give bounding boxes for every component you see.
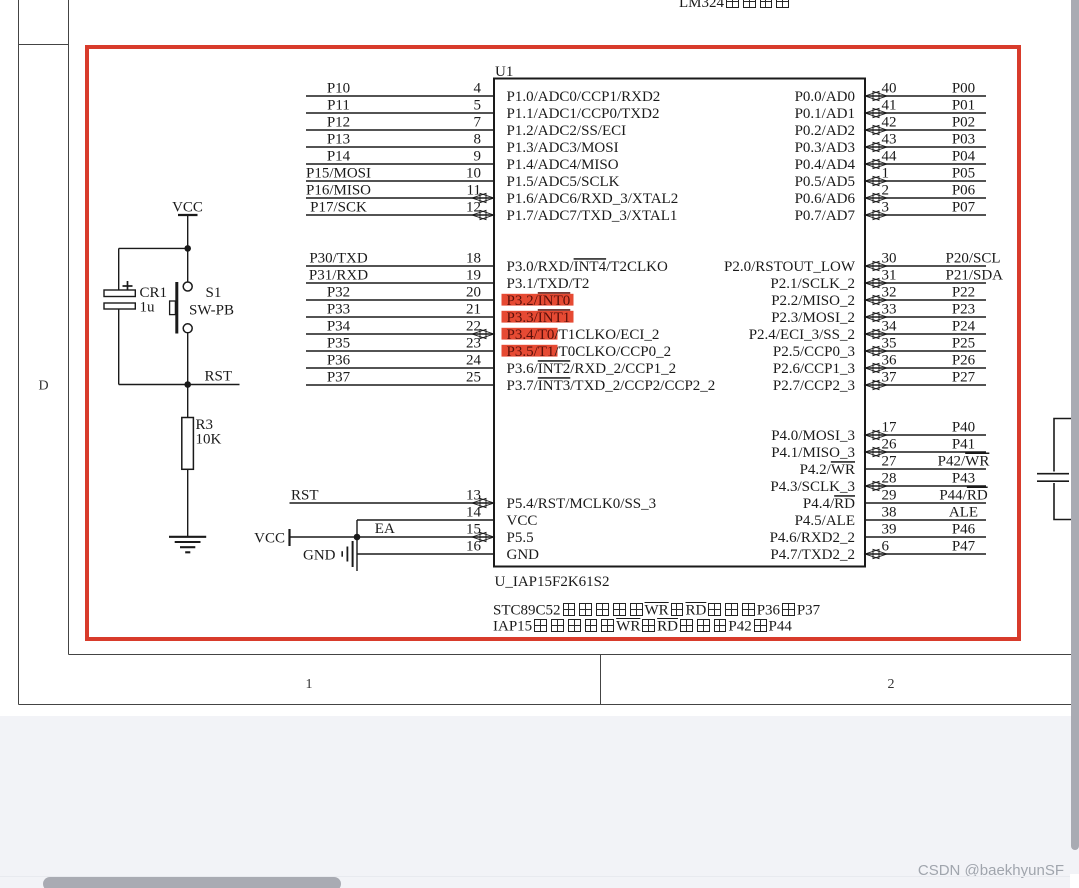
watermark CSDN bbox=[914, 862, 1064, 879]
pin 44 arrow bbox=[865, 159, 887, 168]
svg-text:P2.2/MISO_2: P2.2/MISO_2 bbox=[771, 293, 855, 309]
wire net P16/MISO bbox=[306, 197, 493, 199]
note text WR RD pins bbox=[493, 603, 820, 636]
wire switch bottom bbox=[187, 333, 189, 385]
svg-text:18: 18 bbox=[466, 251, 481, 267]
wire net P03 bbox=[866, 146, 986, 148]
svg-text:P3.2/INT0: P3.2/INT0 bbox=[507, 293, 571, 309]
svg-text:P24: P24 bbox=[952, 319, 976, 335]
wire to capacitor top bbox=[119, 247, 188, 249]
red selection border bbox=[87, 47, 1019, 639]
svg-text:P23: P23 bbox=[952, 302, 975, 318]
wire net P32 bbox=[306, 299, 493, 301]
sheet border inner bottom line bbox=[69, 654, 1072, 656]
wire net P05 bbox=[866, 180, 986, 182]
svg-text:20: 20 bbox=[466, 285, 481, 301]
svg-text:GND: GND bbox=[507, 547, 540, 563]
svg-text:D: D bbox=[38, 379, 48, 394]
wire net P15/MOSI bbox=[306, 180, 493, 182]
wire pin 16 bbox=[357, 553, 493, 555]
svg-text:P0.2/AD2: P0.2/AD2 bbox=[795, 123, 855, 139]
svg-text:P12: P12 bbox=[327, 115, 350, 131]
pin 35 arrow bbox=[865, 346, 887, 355]
svg-text:35: 35 bbox=[882, 336, 897, 352]
wire net P35 bbox=[306, 350, 493, 352]
pin 30 arrow bbox=[865, 261, 887, 270]
svg-text:P4.4/RD: P4.4/RD bbox=[803, 496, 855, 512]
pin 40 arrow bbox=[865, 91, 887, 100]
pin 41 arrow bbox=[865, 108, 887, 117]
svg-text:ALE: ALE bbox=[949, 505, 978, 521]
svg-text:P0.7/AD7: P0.7/AD7 bbox=[795, 208, 856, 224]
svg-text:42: 42 bbox=[882, 115, 897, 131]
pin 34 arrow bbox=[865, 329, 887, 338]
wire net P06 bbox=[866, 197, 986, 199]
svg-text:44: 44 bbox=[882, 149, 898, 165]
svg-text:32: 32 bbox=[882, 285, 897, 301]
wire RST stub bbox=[188, 384, 240, 386]
svg-text:19: 19 bbox=[466, 268, 481, 284]
svg-text:P4.5/ALE: P4.5/ALE bbox=[795, 513, 855, 529]
svg-text:P06: P06 bbox=[952, 183, 976, 199]
sheet border inner left line bbox=[68, 0, 70, 655]
svg-text:P4.3/SCLK_3: P4.3/SCLK_3 bbox=[770, 479, 855, 495]
wire net P02 bbox=[866, 129, 986, 131]
svg-text:P44/RD: P44/RD bbox=[939, 488, 988, 504]
wire net P40 bbox=[866, 434, 986, 436]
wire net P44/[RD] bbox=[866, 502, 986, 504]
svg-text:P26: P26 bbox=[952, 353, 976, 369]
pin 26 arrow bbox=[865, 447, 887, 456]
svg-text:P2.3/MOSI_2: P2.3/MOSI_2 bbox=[771, 310, 855, 326]
sheet border outer left line bbox=[18, 0, 20, 705]
svg-text:P1.7/ADC7/TXD_3/XTAL1: P1.7/ADC7/TXD_3/XTAL1 bbox=[507, 208, 678, 224]
wire net P24 bbox=[866, 333, 986, 335]
svg-text:VCC: VCC bbox=[172, 200, 203, 216]
svg-text:38: 38 bbox=[882, 505, 897, 521]
wire capacitor top lead bbox=[118, 248, 120, 290]
pin 22 arrow bbox=[472, 329, 494, 338]
highlight P3.5 bbox=[502, 345, 558, 357]
pin 43 arrow bbox=[865, 142, 887, 151]
pin 32 arrow bbox=[865, 295, 887, 304]
svg-text:17: 17 bbox=[882, 420, 898, 436]
svg-text:P4.2/WR: P4.2/WR bbox=[800, 462, 855, 478]
wire net P13 bbox=[306, 146, 493, 148]
svg-text:10: 10 bbox=[466, 166, 481, 182]
svg-text:P13: P13 bbox=[327, 132, 350, 148]
pin 15 arrow bbox=[472, 532, 494, 541]
svg-text:P4.1/MISO_3: P4.1/MISO_3 bbox=[771, 445, 855, 461]
wire net P26 bbox=[866, 367, 986, 369]
svg-text:34: 34 bbox=[882, 319, 898, 335]
pin 1 arrow bbox=[865, 176, 887, 185]
wire net P22 bbox=[866, 299, 986, 301]
wire to switch top bbox=[187, 248, 189, 282]
svg-text:6: 6 bbox=[882, 539, 890, 555]
svg-text:RST: RST bbox=[205, 369, 233, 385]
svg-text:P14: P14 bbox=[327, 149, 351, 165]
svg-text:P34: P34 bbox=[327, 319, 351, 335]
wire net ALE bbox=[866, 519, 986, 521]
pin 17 arrow bbox=[865, 430, 887, 439]
svg-text:2: 2 bbox=[888, 677, 895, 692]
svg-text:23: 23 bbox=[466, 336, 481, 352]
capacitor CR1 plate 1 bbox=[104, 290, 135, 297]
op U1 chip body bbox=[494, 79, 865, 567]
svg-text:4: 4 bbox=[474, 81, 482, 97]
highlight P3.4 bbox=[502, 328, 558, 340]
svg-text:P1.6/ADC6/RXD_3/XTAL2: P1.6/ADC6/RXD_3/XTAL2 bbox=[507, 191, 679, 207]
wire net P25 bbox=[866, 350, 986, 352]
svg-text:29: 29 bbox=[882, 488, 897, 504]
capacitor CR1 plus sign bbox=[123, 281, 133, 291]
svg-text:P4.0/MOSI_3: P4.0/MOSI_3 bbox=[771, 428, 855, 444]
svg-text:P0.3/AD3: P0.3/AD3 bbox=[795, 140, 855, 156]
svg-text:U1: U1 bbox=[495, 64, 513, 80]
svg-text:P0.5/AD5: P0.5/AD5 bbox=[795, 174, 855, 190]
junction VCC node bbox=[184, 245, 191, 252]
svg-text:P2.7/CCP2_3: P2.7/CCP2_3 bbox=[773, 378, 855, 394]
pin 28 arrow bbox=[865, 481, 887, 490]
resistor R3 body bbox=[182, 418, 194, 470]
wire VCC stem bbox=[187, 215, 189, 248]
svg-text:P2.0/RSTOUT_LOW: P2.0/RSTOUT_LOW bbox=[724, 259, 856, 275]
svg-text:P22: P22 bbox=[952, 285, 975, 301]
ground symbol earth bbox=[169, 537, 206, 553]
junction VCC/EA bbox=[354, 534, 361, 541]
wire pin 14 bbox=[357, 519, 493, 521]
svg-text:1: 1 bbox=[306, 677, 313, 692]
svg-text:P3.7/INT3/TXD_2/CCP2/CCP2_2: P3.7/INT3/TXD_2/CCP2/CCP2_2 bbox=[507, 378, 716, 394]
sheet zone divider tick bbox=[19, 44, 69, 46]
svg-text:P04: P04 bbox=[952, 149, 976, 165]
svg-text:P1.2/ADC2/SS/ECI: P1.2/ADC2/SS/ECI bbox=[507, 123, 627, 139]
svg-text:P36: P36 bbox=[327, 353, 351, 369]
svg-text:P3.1/TXD/T2: P3.1/TXD/T2 bbox=[507, 276, 590, 292]
svg-text:P00: P00 bbox=[952, 81, 975, 97]
wire capacitor bottom lead bbox=[118, 309, 120, 385]
svg-text:P10: P10 bbox=[327, 81, 350, 97]
svg-text:P03: P03 bbox=[952, 132, 975, 148]
svg-text:41: 41 bbox=[882, 98, 897, 114]
pin 13 arrow bbox=[472, 498, 494, 507]
svg-text:40: 40 bbox=[882, 81, 897, 97]
pin 42 arrow bbox=[865, 125, 887, 134]
pin 11 arrow bbox=[472, 193, 494, 202]
svg-text:P4.6/RXD2_2: P4.6/RXD2_2 bbox=[770, 530, 855, 546]
svg-text:21: 21 bbox=[466, 302, 481, 318]
pin 2 arrow bbox=[865, 193, 887, 202]
capacitor C? plate 2 bbox=[1037, 480, 1069, 482]
svg-text:P1.4/ADC4/MISO: P1.4/ADC4/MISO bbox=[507, 157, 619, 173]
svg-text:SW-PB: SW-PB bbox=[189, 303, 234, 319]
sheet border outer bottom line bbox=[19, 704, 1072, 706]
wire net P07 bbox=[866, 214, 986, 216]
svg-text:P3.0/RXD/INT4/T2CLKO: P3.0/RXD/INT4/T2CLKO bbox=[507, 259, 668, 275]
svg-text:P02: P02 bbox=[952, 115, 975, 131]
wire net P43 bbox=[866, 485, 986, 487]
svg-text:P1.0/ADC0/CCP1/RXD2: P1.0/ADC0/CCP1/RXD2 bbox=[507, 89, 661, 105]
switch S1 plunger bar bbox=[175, 282, 178, 334]
svg-text:30: 30 bbox=[882, 251, 897, 267]
wire net P20/SCL bbox=[866, 265, 986, 267]
pin 31 arrow bbox=[865, 278, 887, 287]
svg-text:P31/RXD: P31/RXD bbox=[309, 268, 368, 284]
highlight P3.2 bbox=[502, 294, 574, 306]
svg-text:27: 27 bbox=[882, 454, 898, 470]
wire net P31/RXD bbox=[306, 282, 493, 284]
svg-text:P1.3/ADC3/MOSI: P1.3/ADC3/MOSI bbox=[507, 140, 619, 156]
svg-text:1u: 1u bbox=[140, 300, 156, 316]
wire net P33 bbox=[306, 316, 493, 318]
wire R3 to ground bbox=[187, 469, 189, 537]
wire net P14 bbox=[306, 163, 493, 165]
svg-text:P27: P27 bbox=[952, 370, 976, 386]
svg-text:P3.5/T1/T0CLKO/CCP0_2: P3.5/T1/T0CLKO/CCP0_2 bbox=[507, 344, 672, 360]
wire net P46 bbox=[866, 536, 986, 538]
svg-text:P3.4/T0/T1CLKO/ECI_2: P3.4/T0/T1CLKO/ECI_2 bbox=[507, 327, 660, 343]
wire net P10 bbox=[306, 95, 493, 97]
svg-text:P16/MISO: P16/MISO bbox=[306, 183, 371, 199]
svg-text:P2.6/CCP1_3: P2.6/CCP1_3 bbox=[773, 361, 855, 377]
wire net RST to pin 13 bbox=[290, 502, 494, 504]
svg-text:P40: P40 bbox=[952, 420, 975, 436]
svg-text:P5.5: P5.5 bbox=[507, 530, 534, 546]
wire net P17/SCK bbox=[306, 214, 493, 216]
svg-text:P1.5/ADC5/SCLK: P1.5/ADC5/SCLK bbox=[507, 174, 620, 190]
svg-text:P01: P01 bbox=[952, 98, 975, 114]
pin 36 arrow bbox=[865, 363, 887, 372]
svg-text:P21/SDA: P21/SDA bbox=[946, 268, 1004, 284]
sheet zone divider bottom bbox=[600, 655, 602, 705]
svg-text:P37: P37 bbox=[327, 370, 351, 386]
scrollbar corner bbox=[1070, 874, 1079, 888]
svg-text:VCC: VCC bbox=[254, 531, 285, 547]
wire net VCC to pin 15 bbox=[290, 536, 494, 538]
wire net P42/[WR] bbox=[866, 468, 986, 470]
label LM324 power ground text (top, cut off) bbox=[679, 0, 791, 12]
svg-text:24: 24 bbox=[466, 353, 482, 369]
switch S1 button bbox=[170, 301, 176, 315]
svg-text:P0.1/AD1: P0.1/AD1 bbox=[795, 106, 855, 122]
svg-text:P05: P05 bbox=[952, 166, 975, 182]
svg-text:P2.5/CCP0_3: P2.5/CCP0_3 bbox=[773, 344, 855, 360]
wire net P27 bbox=[866, 384, 986, 386]
wire net P01 bbox=[866, 112, 986, 114]
horizontal scrollbar thumb bbox=[43, 877, 341, 888]
capacitor C? bottom lead bbox=[1054, 483, 1072, 520]
svg-text:GND: GND bbox=[303, 548, 336, 564]
svg-text:36: 36 bbox=[882, 353, 898, 369]
capacitor C? plate 1 bbox=[1037, 473, 1069, 475]
svg-text:37: 37 bbox=[882, 370, 898, 386]
pin 6 arrow bbox=[865, 549, 887, 558]
svg-text:P3.3/INT1: P3.3/INT1 bbox=[507, 310, 571, 326]
junction RST node bbox=[184, 381, 191, 388]
svg-text:EA: EA bbox=[375, 521, 395, 537]
svg-text:7: 7 bbox=[474, 115, 482, 131]
svg-text:P17/SCK: P17/SCK bbox=[310, 200, 367, 216]
svg-text:10K: 10K bbox=[196, 432, 222, 448]
pin 3 arrow bbox=[865, 210, 887, 219]
highlight P3.3 bbox=[502, 311, 574, 323]
wire net P47 bbox=[866, 553, 986, 555]
svg-text:P41: P41 bbox=[952, 437, 975, 453]
svg-text:16: 16 bbox=[466, 539, 482, 555]
wire net P34 bbox=[306, 333, 493, 335]
page body gray background bbox=[0, 716, 1079, 888]
wire net P04 bbox=[866, 163, 986, 165]
pin 37 arrow bbox=[865, 380, 887, 389]
svg-text:33: 33 bbox=[882, 302, 897, 318]
wire net P23 bbox=[866, 316, 986, 318]
svg-text:P07: P07 bbox=[952, 200, 976, 216]
capacitor C? right edge top lead bbox=[1054, 419, 1072, 472]
svg-text:P20/SCL: P20/SCL bbox=[946, 251, 1001, 267]
svg-text:RST: RST bbox=[291, 488, 319, 504]
svg-text:VCC: VCC bbox=[507, 513, 538, 529]
VCC power bar bbox=[178, 214, 198, 216]
svg-text:P30/TXD: P30/TXD bbox=[309, 251, 368, 267]
svg-text:S1: S1 bbox=[206, 285, 222, 301]
svg-text:26: 26 bbox=[882, 437, 898, 453]
svg-text:25: 25 bbox=[466, 370, 481, 386]
capacitor CR1 plate 2 bbox=[104, 303, 135, 309]
VCC port bar bbox=[288, 529, 290, 546]
svg-text:P46: P46 bbox=[952, 522, 976, 538]
svg-text:P11: P11 bbox=[327, 98, 350, 114]
svg-text:P42/WR: P42/WR bbox=[938, 454, 990, 470]
wire net P30/TXD bbox=[306, 265, 493, 267]
svg-text:P5.4/RST/MCLK0/SS_3: P5.4/RST/MCLK0/SS_3 bbox=[507, 496, 657, 512]
svg-text:P1.1/ADC1/CCP0/TXD2: P1.1/ADC1/CCP0/TXD2 bbox=[507, 106, 660, 122]
vertical scrollbar thumb bbox=[1071, 0, 1079, 850]
ground symbol bars (rotated) bbox=[342, 541, 352, 567]
svg-text:P2.1/SCLK_2: P2.1/SCLK_2 bbox=[770, 276, 855, 292]
svg-text:28: 28 bbox=[882, 471, 897, 487]
svg-text:P33: P33 bbox=[327, 302, 350, 318]
svg-text:5: 5 bbox=[474, 98, 482, 114]
svg-text:P0.4/AD4: P0.4/AD4 bbox=[795, 157, 856, 173]
svg-text:9: 9 bbox=[474, 149, 482, 165]
svg-text:31: 31 bbox=[882, 268, 897, 284]
scrollbar track divider bbox=[0, 876, 1070, 877]
svg-text:43: 43 bbox=[882, 132, 897, 148]
svg-text:P2.4/ECI_3/SS_2: P2.4/ECI_3/SS_2 bbox=[749, 327, 855, 343]
svg-text:8: 8 bbox=[474, 132, 482, 148]
svg-text:P4.7/TXD2_2: P4.7/TXD2_2 bbox=[770, 547, 855, 563]
wire net P41 bbox=[866, 451, 986, 453]
wire net P00 bbox=[866, 95, 986, 97]
svg-text:P3.6/INT2/RXD_2/CCP1_2: P3.6/INT2/RXD_2/CCP1_2 bbox=[507, 361, 677, 377]
wire net P21/SDA bbox=[866, 282, 986, 284]
svg-text:P0.0/AD0: P0.0/AD0 bbox=[795, 89, 855, 105]
svg-text:P35: P35 bbox=[327, 336, 350, 352]
svg-text:P43: P43 bbox=[952, 471, 975, 487]
wire net P37 bbox=[306, 384, 493, 386]
pin 12 arrow bbox=[472, 210, 494, 219]
wire net P12 bbox=[306, 129, 493, 131]
svg-text:P47: P47 bbox=[952, 539, 976, 555]
svg-text:P25: P25 bbox=[952, 336, 975, 352]
svg-text:P15/MOSI: P15/MOSI bbox=[306, 166, 371, 182]
switch S1 contact top bbox=[183, 282, 192, 291]
switch S1 contact bottom bbox=[183, 324, 192, 333]
wire vertical pin14 to ground bbox=[356, 520, 358, 571]
wire net P36 bbox=[306, 367, 493, 369]
wire capacitor to RST node bbox=[119, 384, 188, 386]
wire net P11 bbox=[306, 112, 493, 114]
svg-text:39: 39 bbox=[882, 522, 897, 538]
svg-text:U_IAP15F2K61S2: U_IAP15F2K61S2 bbox=[495, 574, 610, 590]
wire to R3 top bbox=[187, 385, 189, 418]
svg-text:P32: P32 bbox=[327, 285, 350, 301]
svg-text:P0.6/AD6: P0.6/AD6 bbox=[795, 191, 856, 207]
pin 33 arrow bbox=[865, 312, 887, 321]
svg-text:14: 14 bbox=[466, 505, 482, 521]
